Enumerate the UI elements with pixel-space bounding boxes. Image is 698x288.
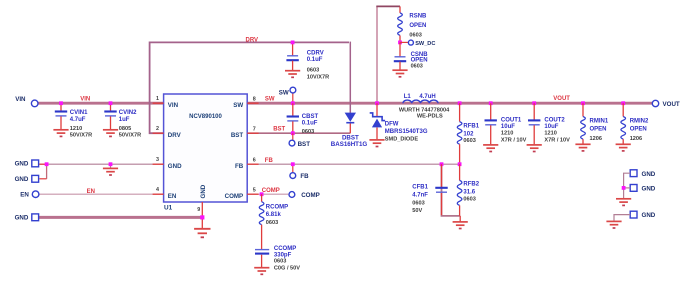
svg-text:1206: 1206: [630, 136, 642, 142]
svg-text:VIN: VIN: [80, 97, 90, 103]
svg-text:OPEN: OPEN: [630, 127, 647, 133]
svg-text:RFB2: RFB2: [463, 182, 479, 188]
svg-text:50V/X7R: 50V/X7R: [70, 132, 92, 138]
svg-text:VIN: VIN: [15, 96, 26, 103]
svg-text:GND: GND: [15, 215, 29, 222]
wire FB net from pin 6 to divider: [247, 163, 459, 165]
svg-text:SW: SW: [265, 97, 275, 103]
svg-text:FB: FB: [235, 163, 244, 170]
svg-text:COUT1: COUT1: [501, 117, 522, 123]
svg-text:50V: 50V: [412, 208, 422, 214]
svg-text:RFB1: RFB1: [463, 123, 479, 129]
svg-text:GND: GND: [168, 163, 182, 170]
svg-text:1210: 1210: [70, 126, 82, 132]
svg-text:0603: 0603: [307, 68, 319, 74]
resistor RMIN1: [582, 103, 584, 116]
resistor RSNB: [399, 6, 401, 12]
svg-text:1206: 1206: [590, 136, 602, 142]
port GND A stub: [39, 163, 46, 165]
svg-text:0603: 0603: [274, 259, 286, 265]
capacitor CVIN1: [60, 103, 62, 111]
svg-text:8: 8: [253, 97, 256, 103]
svg-text:0603: 0603: [409, 32, 421, 38]
port GND B stub: [39, 178, 46, 180]
svg-text:VIN: VIN: [168, 102, 179, 109]
junction SW_DC node: [398, 41, 402, 45]
port FB stub: [292, 164, 294, 173]
svg-text:RCOMP: RCOMP: [266, 205, 288, 211]
svg-text:1: 1: [156, 96, 159, 102]
svg-text:102: 102: [463, 131, 474, 137]
ground on GND net: [110, 164, 112, 168]
svg-text:0.1uF: 0.1uF: [302, 121, 318, 127]
svg-text:330pF: 330pF: [274, 252, 292, 258]
port SW_DC: [408, 40, 413, 45]
svg-text:VOUT: VOUT: [663, 101, 680, 108]
U1 pin 4 stub: [153, 193, 164, 195]
port GND D: [630, 170, 637, 177]
wire CFB1 bottom link: [442, 165, 461, 216]
wire snubber top jog: [376, 5, 400, 7]
port BST stub: [292, 133, 294, 140]
svg-text:SMD_DIODE: SMD_DIODE: [385, 137, 419, 143]
port GND C: [32, 214, 39, 221]
svg-text:0603: 0603: [266, 220, 278, 226]
svg-text:CFB1: CFB1: [412, 185, 428, 191]
port SW stub: [292, 93, 294, 103]
junction CFB1 top: [440, 162, 444, 166]
svg-text:7: 7: [253, 127, 256, 133]
svg-text:X7R / 10V: X7R / 10V: [544, 137, 570, 143]
junction COUT1: [489, 101, 493, 105]
svg-text:RMIN2: RMIN2: [630, 119, 649, 125]
junction pin 9 / GND bus: [200, 215, 204, 219]
capacitor CSNB: [399, 42, 401, 56]
svg-text:X7R / 10V: X7R / 10V: [501, 137, 527, 143]
svg-text:GND: GND: [15, 176, 29, 183]
svg-text:WURTH 744778004: WURTH 744778004: [399, 107, 450, 113]
svg-text:BST: BST: [231, 132, 244, 139]
svg-text:CBST: CBST: [302, 114, 319, 120]
svg-text:BST: BST: [298, 141, 311, 148]
wire GND net row: port to pin 3: [37, 163, 164, 165]
svg-text:COUT2: COUT2: [544, 117, 565, 123]
junction SW port: [291, 101, 295, 105]
capacitor CFB1: [441, 164, 443, 188]
svg-text:4: 4: [156, 187, 159, 193]
svg-text:10uF: 10uF: [544, 124, 558, 130]
svg-text:MBRS1540T3G: MBRS1540T3G: [385, 129, 428, 135]
port GND A: [32, 160, 39, 167]
ground RFB2/CFB1: [459, 216, 461, 222]
svg-text:U1: U1: [164, 205, 173, 212]
svg-text:RSNB: RSNB: [409, 14, 427, 20]
wire DRV net: pin 2 up and across to DBST: [150, 42, 349, 133]
svg-text:EN: EN: [87, 189, 95, 195]
junction GND net at port riser: [45, 162, 49, 166]
wire VIN bus from port to pin 1: [35, 102, 164, 105]
ground DFW: [369, 140, 384, 147]
svg-text:GND: GND: [642, 171, 656, 178]
junction RFB1 top: [458, 101, 462, 105]
svg-text:DRV: DRV: [246, 37, 259, 43]
svg-text:C0G / 50V: C0G / 50V: [274, 265, 300, 271]
svg-text:FB: FB: [300, 173, 309, 180]
port EN: [32, 191, 39, 198]
svg-text:10uF: 10uF: [501, 124, 515, 130]
svg-text:GND: GND: [200, 184, 207, 198]
port GND E: [630, 185, 637, 192]
diode DBST BAS16HT1G: [345, 113, 356, 122]
svg-text:0603: 0603: [463, 138, 475, 144]
junction FB node: [458, 162, 462, 166]
wire GND D/E to ground: [624, 173, 631, 198]
U1 pin 7 stub: [247, 132, 258, 134]
svg-text:OPEN: OPEN: [590, 127, 607, 133]
wire snubber riser from SW bus: [376, 6, 378, 103]
op-amp U1 NCV890100 regulator body: [164, 94, 248, 202]
svg-text:EN: EN: [20, 192, 29, 199]
resistor RCOMP: [261, 194, 263, 202]
resistor RFB2: [459, 164, 461, 180]
capacitor COUT1: [490, 103, 492, 120]
junction DFW anode: [375, 101, 379, 105]
U1 pin 9 stub: [201, 202, 203, 228]
junction RMIN2: [621, 101, 625, 105]
U1 pin 1 stub: [153, 102, 164, 104]
capacitor CVIN2: [110, 103, 112, 111]
U1 pin 2 stub: [153, 132, 164, 134]
svg-text:RMIN1: RMIN1: [590, 119, 609, 125]
resistor RMIN2: [622, 103, 624, 116]
wire SW/VOUT bus from pin 8 to VOUT port: [247, 102, 652, 105]
svg-text:4.7uF: 4.7uF: [70, 117, 86, 123]
svg-text:1210: 1210: [544, 131, 556, 137]
diode DFW MBRS1540T3G freewheel: [376, 103, 378, 117]
svg-text:1210: 1210: [501, 131, 513, 137]
ground for GND D/E ports: [616, 199, 631, 206]
svg-text:GND: GND: [642, 186, 656, 193]
port GND F: [630, 211, 637, 218]
U1 pin 5 stub: [247, 193, 258, 195]
svg-text:6: 6: [253, 158, 256, 164]
svg-text:5: 5: [253, 188, 256, 194]
ground CDRV: [285, 71, 300, 78]
svg-text:L1: L1: [404, 94, 412, 100]
junction CDRV: [291, 41, 295, 45]
svg-text:EN: EN: [168, 193, 177, 200]
svg-text:FB: FB: [265, 158, 274, 164]
ground RMIN2: [616, 144, 631, 151]
wire EN net from port to pin 4: [39, 193, 164, 195]
svg-text:SW: SW: [279, 89, 289, 96]
svg-text:10V/X7R: 10V/X7R: [307, 74, 329, 80]
svg-text:4.7nF: 4.7nF: [412, 193, 428, 199]
svg-text:DFW: DFW: [385, 121, 399, 127]
svg-text:CVIN1: CVIN1: [70, 110, 88, 116]
svg-text:GND: GND: [15, 161, 29, 168]
ground COUT1: [483, 145, 498, 152]
wire GND bus from GND port to pin 9 ground: [38, 216, 203, 219]
junction GND E: [622, 186, 626, 190]
ground CVIN1: [53, 130, 68, 137]
ground below pin 9: [194, 229, 210, 238]
svg-text:0603: 0603: [412, 201, 424, 207]
svg-text:4.7uH: 4.7uH: [419, 94, 435, 100]
junction GND net ground: [109, 162, 113, 166]
ground CCOMP: [254, 268, 269, 275]
junction COMP: [260, 192, 264, 196]
svg-text:9: 9: [197, 207, 200, 213]
svg-text:CVIN2: CVIN2: [119, 110, 137, 116]
wire DRV drop to DBST anode: [349, 42, 351, 113]
junction CVIN1: [59, 101, 63, 105]
junction CVIN2: [109, 101, 113, 105]
svg-text:31.6: 31.6: [463, 190, 475, 196]
junction RMIN1: [581, 101, 585, 105]
ground CSNB: [392, 70, 407, 77]
svg-text:CCOMP: CCOMP: [274, 246, 296, 252]
svg-text:WE-PDLS: WE-PDLS: [417, 114, 443, 120]
svg-text:DRV: DRV: [168, 132, 182, 139]
svg-text:BST: BST: [273, 127, 285, 133]
svg-text:0805: 0805: [119, 126, 131, 132]
svg-text:0.1uF: 0.1uF: [307, 57, 323, 63]
port VOUT: [652, 100, 658, 106]
wire GND2 port riser: [46, 164, 48, 179]
ground CVIN2: [103, 130, 118, 137]
ground COUT2: [527, 145, 542, 152]
svg-text:SW_DC: SW_DC: [415, 41, 435, 47]
capacitor COUT2: [533, 103, 535, 120]
port FB: [290, 173, 296, 179]
port SW: [290, 87, 296, 93]
svg-text:1uF: 1uF: [119, 117, 130, 123]
svg-text:50V/X7R: 50V/X7R: [119, 132, 141, 138]
svg-text:OPEN: OPEN: [409, 23, 426, 29]
inductor L1 4.7uH: [403, 100, 438, 103]
ground RMIN1: [575, 144, 590, 151]
svg-text:COMP: COMP: [225, 193, 244, 200]
U1 pin 6 stub: [247, 163, 258, 165]
svg-text:0603: 0603: [302, 129, 314, 135]
U1 pin 3 stub: [153, 163, 164, 165]
svg-text:VOUT: VOUT: [553, 96, 570, 102]
svg-text:2: 2: [156, 126, 159, 132]
ground for GND F port: [606, 221, 621, 228]
svg-text:BAS16HT1G: BAS16HT1G: [331, 141, 368, 148]
svg-text:GND: GND: [642, 212, 656, 219]
svg-text:3: 3: [156, 157, 159, 163]
svg-text:COMP: COMP: [301, 192, 320, 199]
wire COMP stub from pin 5 to port: [247, 193, 288, 195]
U1 pin 8 stub: [247, 102, 258, 104]
capacitor CDRV: [292, 42, 294, 55]
junction COUT2: [532, 101, 536, 105]
svg-text:0603: 0603: [411, 63, 423, 69]
port COMP: [289, 192, 295, 198]
wire BST net from pin 7 to DBST cathode: [247, 132, 350, 134]
svg-text:SW: SW: [233, 102, 243, 109]
svg-text:NCV890100: NCV890100: [189, 114, 222, 120]
resistor RFB1: [459, 103, 461, 121]
capacitor CBST: [292, 103, 294, 116]
port SW_DC stub: [400, 41, 408, 43]
svg-text:CDRV: CDRV: [307, 50, 324, 56]
svg-text:0603: 0603: [463, 197, 475, 203]
port VIN: [31, 100, 38, 107]
junction FB port: [291, 162, 295, 166]
port BST: [289, 140, 295, 146]
svg-text:COMP: COMP: [262, 188, 280, 194]
wire GND F to ground: [614, 215, 630, 221]
svg-text:6.81k: 6.81k: [266, 212, 282, 218]
port GND B: [32, 175, 39, 182]
capacitor CCOMP: [255, 249, 269, 251]
junction CBST/BST: [291, 131, 295, 135]
